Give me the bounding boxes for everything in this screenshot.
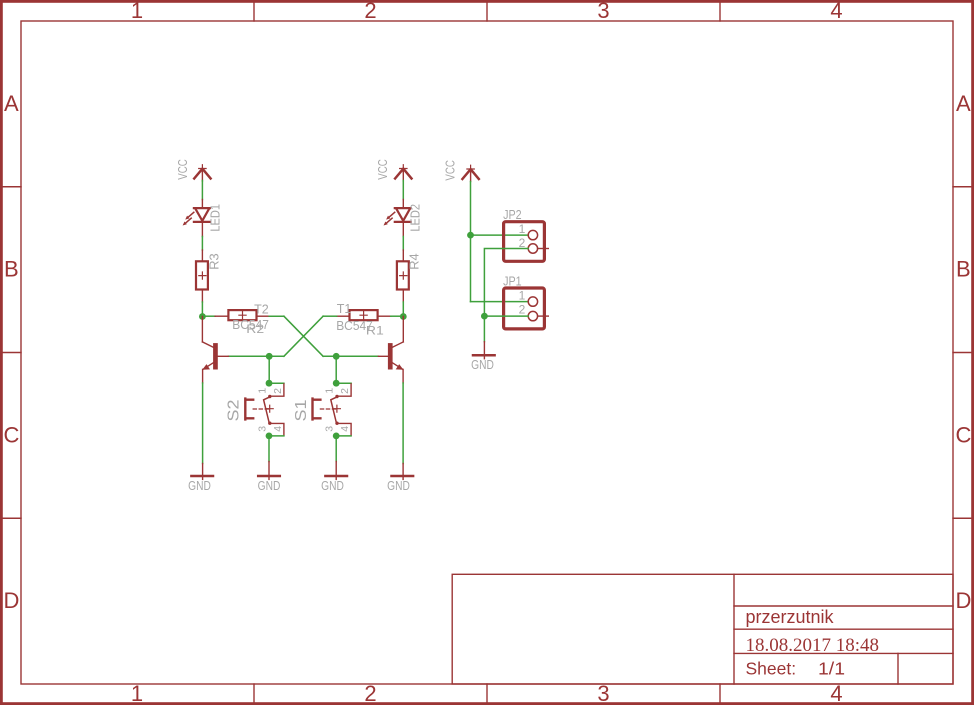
junction node JP1 pin2: [481, 313, 488, 320]
wire VCC to LED1: [201, 181, 203, 200]
power VCC P+2: [375, 159, 412, 181]
wire node to JP2 pin1: [471, 234, 529, 236]
wire cross X diagonal left-to-right: [284, 316, 323, 356]
wire JP2 pin2: [484, 249, 528, 317]
junction node S1 bottom: [333, 433, 340, 440]
ground GND5: [471, 342, 494, 372]
svg-text:LED2: LED2: [407, 204, 422, 232]
svg-text:A: A: [4, 91, 19, 116]
svg-text:D: D: [3, 588, 19, 613]
wire node to JP1 pin2: [484, 315, 528, 317]
svg-text:BC547: BC547: [336, 318, 373, 333]
svg-text:1: 1: [256, 388, 268, 394]
svg-text:BC547: BC547: [232, 317, 269, 332]
wire to JP1 pin1: [471, 301, 529, 303]
svg-text:VCC: VCC: [442, 160, 457, 181]
wire cross X diagonal right-to-left: [284, 316, 323, 356]
transistor T2 BC547: [202, 301, 269, 383]
resistor R1: [337, 310, 391, 337]
ground GND4: [387, 464, 413, 493]
wire left base node to S2: [268, 356, 270, 383]
svg-text:GND: GND: [387, 479, 410, 493]
svg-text:1: 1: [324, 388, 336, 394]
svg-text:1/1: 1/1: [818, 659, 845, 679]
wire R2 to X top-left: [269, 315, 284, 317]
svg-text:GND: GND: [321, 479, 344, 493]
wire R1 to X top-right: [323, 315, 337, 317]
power VCC P+3: [442, 160, 479, 181]
pin header JP1: [503, 274, 548, 329]
svg-text:JP1: JP1: [503, 274, 521, 289]
svg-text:2: 2: [364, 0, 376, 23]
wire R3 to node: [201, 302, 203, 317]
wire node to GND5: [483, 316, 485, 342]
svg-text:4: 4: [830, 0, 842, 23]
junction node S2 top: [266, 380, 273, 387]
svg-text:T1: T1: [337, 301, 352, 316]
svg-text:2: 2: [364, 681, 376, 705]
svg-text:B: B: [956, 257, 971, 282]
svg-text:VCC: VCC: [375, 159, 390, 180]
ground GND3: [321, 462, 347, 493]
transistor T1 BC547: [336, 301, 403, 383]
svg-text:Sheet:: Sheet:: [746, 659, 797, 679]
resistor R2: [215, 310, 269, 336]
svg-text:GND: GND: [188, 479, 211, 493]
svg-text:LED1: LED1: [207, 204, 222, 232]
LED LED2: [384, 200, 423, 237]
svg-text:GND: GND: [258, 479, 281, 493]
svg-text:R4: R4: [407, 253, 422, 269]
svg-text:R3: R3: [207, 253, 222, 269]
svg-text:S1: S1: [293, 399, 310, 421]
switch S2: [226, 383, 284, 436]
svg-text:4: 4: [339, 426, 351, 432]
svg-text:2: 2: [519, 303, 526, 317]
junction node right base: [333, 353, 340, 360]
svg-text:C: C: [955, 422, 971, 447]
wire node to R2: [202, 315, 215, 317]
junction node S1 top: [333, 380, 340, 387]
svg-text:D: D: [955, 588, 971, 613]
svg-text:1: 1: [131, 681, 143, 705]
svg-text:S2: S2: [226, 399, 243, 421]
ground GND1: [188, 464, 213, 493]
junction node VCC JP2: [467, 232, 474, 239]
svg-text:T2: T2: [254, 301, 269, 316]
svg-text:A: A: [956, 91, 971, 116]
switch S1: [293, 383, 351, 436]
svg-text:GND: GND: [471, 358, 494, 372]
resistor R4: [397, 250, 422, 302]
wire VCC to LED2: [402, 181, 404, 200]
wire R4 to node: [402, 302, 404, 317]
LED LED1: [183, 200, 223, 237]
svg-text:3: 3: [597, 0, 609, 23]
wire X to right base: [323, 355, 378, 357]
pin header JP2: [503, 207, 548, 261]
svg-text:1: 1: [131, 0, 143, 23]
svg-text:18.08.2017 18:48: 18.08.2017 18:48: [746, 635, 880, 656]
svg-text:przerzutnik: przerzutnik: [746, 607, 835, 627]
wire T1 emitter to GND: [402, 383, 404, 464]
wire S2 to GND: [268, 436, 270, 462]
svg-text:C: C: [3, 422, 19, 447]
wire S1 to GND: [335, 436, 337, 462]
resistor R3: [196, 250, 222, 302]
junction node left collector: [199, 313, 206, 320]
wire LED1 to R3: [201, 237, 203, 251]
wire VCC3 down: [470, 182, 472, 236]
wire LED2 to R4: [402, 237, 404, 251]
svg-text:2: 2: [339, 388, 351, 394]
title block: [452, 574, 953, 684]
svg-text:4: 4: [272, 426, 284, 432]
svg-text:JP2: JP2: [503, 207, 521, 222]
junction node S2 bottom: [266, 433, 273, 440]
ground GND2: [258, 462, 281, 493]
wire X to left base: [228, 355, 284, 357]
wire node down to JP1 level: [470, 235, 472, 302]
svg-text:3: 3: [256, 426, 268, 432]
svg-text:1: 1: [519, 289, 526, 303]
wire right base node to S1: [335, 356, 337, 383]
junction node left base: [266, 353, 273, 360]
svg-text:2: 2: [272, 388, 284, 394]
svg-text:3: 3: [324, 426, 336, 432]
svg-text:B: B: [4, 257, 19, 282]
wire T2 emitter to GND: [202, 383, 204, 464]
svg-text:1: 1: [519, 222, 526, 236]
wire R1 to node: [391, 315, 404, 317]
svg-text:VCC: VCC: [175, 159, 190, 180]
power VCC P+1: [175, 159, 211, 181]
junction node right collector: [400, 313, 407, 320]
